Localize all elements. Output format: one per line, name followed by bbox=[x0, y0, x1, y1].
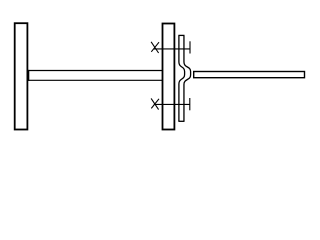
column flange (left vertical plate) bbox=[15, 23, 28, 129]
bolt B2 shank line bbox=[154, 103, 190, 105]
bolt B1 shank line bbox=[154, 48, 190, 50]
bent strip bottom closing edge bbox=[178, 120, 184, 122]
bolt B1 X mark stroke 1 bbox=[151, 42, 159, 53]
bolt B1 X mark stroke 2 bbox=[151, 42, 159, 52]
bolt B2 X mark stroke 1 bbox=[151, 98, 159, 109]
bolt B2 end tick bbox=[189, 98, 191, 110]
beam bottom edge line bbox=[27, 79, 162, 81]
bent strip left edge (S-jog profile) bbox=[179, 35, 185, 121]
bent strip right edge (S-jog profile) bbox=[184, 35, 191, 121]
bolt B2 X mark stroke 2 bbox=[151, 99, 159, 109]
end plate (middle vertical plate) bbox=[163, 24, 175, 130]
beam top edge line bbox=[27, 70, 162, 72]
beam left end closing line at column face bbox=[28, 70, 30, 81]
bolt B1 end tick bbox=[189, 41, 191, 53]
right beam (horizontal member) bbox=[194, 72, 305, 78]
bent strip top closing edge bbox=[178, 34, 184, 36]
